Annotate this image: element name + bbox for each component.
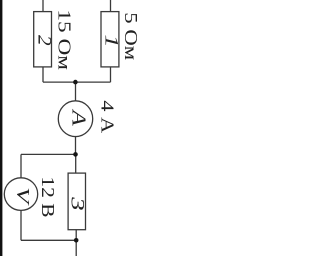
svg-text:3: 3	[67, 196, 88, 211]
svg-text:2: 2	[34, 35, 54, 46]
svg-text:A: A	[68, 108, 90, 126]
svg-text:4 А: 4 А	[97, 100, 116, 133]
svg-text:12 В: 12 В	[37, 176, 56, 217]
svg-text:V: V	[13, 187, 33, 206]
svg-text:5 Ом: 5 Ом	[120, 12, 139, 60]
svg-text:1: 1	[101, 34, 122, 47]
svg-text:15 Ом: 15 Ом	[54, 9, 73, 70]
